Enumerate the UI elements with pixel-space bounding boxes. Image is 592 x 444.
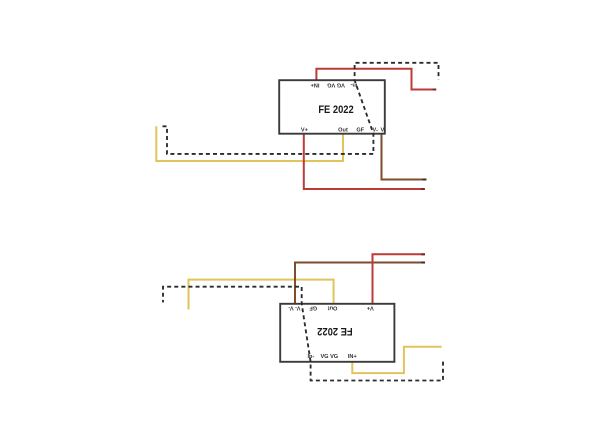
wire yellow: module U2 pin IN+ to right end — [352, 347, 441, 373]
svg-text:VG VG: VG VG — [327, 82, 345, 88]
wire yellow: module U2 pin Out to left stub down — [189, 280, 334, 310]
wire yellow: module U1 pin Out to left stub — [156, 126, 343, 161]
svg-text:FE 2022: FE 2022 — [317, 325, 353, 337]
wire red: module U2 pin V+ up right — [373, 254, 426, 303]
svg-text:Out: Out — [328, 304, 338, 310]
wire brown: module U1 pin V- down right — [382, 134, 427, 180]
svg-text:FE 2022: FE 2022 — [318, 104, 354, 116]
wire dashed: module U1 net (In- / V- loop) — [163, 63, 439, 154]
svg-text:IN+: IN+ — [348, 354, 358, 360]
wire brown: module U2 pin V- up right — [295, 263, 425, 304]
wire red: module U1 pin IN+ top loop — [316, 69, 436, 90]
wire red end cap — [433, 89, 437, 91]
svg-text:VG VG: VG VG — [320, 354, 338, 360]
module U2 body (rotated copy) — [280, 304, 394, 362]
svg-text:V+: V+ — [366, 304, 374, 310]
svg-text:V-: V- — [373, 127, 378, 133]
svg-text:V-: V- — [381, 127, 386, 133]
svg-text:IN+: IN+ — [310, 82, 320, 88]
svg-text:V-: V- — [288, 304, 293, 310]
svg-text:GF: GF — [356, 127, 364, 133]
svg-text:GF: GF — [309, 304, 317, 310]
wire red end cap — [421, 188, 425, 190]
svg-text:V-: V- — [295, 304, 300, 310]
wire dashed: module U2 net (In- / V- loop) — [163, 287, 443, 381]
module U1 body — [279, 80, 385, 134]
wire brown end cap — [423, 179, 427, 181]
wire red end cap — [421, 253, 425, 255]
wire red: module U1 pin V+ down right — [304, 134, 425, 189]
svg-text:V+: V+ — [301, 127, 309, 133]
svg-text:Out: Out — [338, 127, 348, 133]
wire brown end cap — [421, 262, 425, 264]
